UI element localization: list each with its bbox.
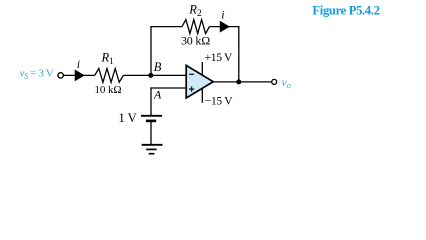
svg-text:30 kΩ: 30 kΩ	[181, 33, 210, 47]
svg-text:vS = 3 V: vS = 3 V	[20, 67, 54, 80]
wire node A to battery	[150, 87, 152, 115]
battery negative plate	[146, 120, 156, 123]
svg-text:i: i	[77, 57, 80, 71]
wire input	[63, 74, 94, 76]
wire noninverting input	[151, 87, 187, 89]
resistor R1	[95, 69, 124, 83]
current arrow i (feedback)	[220, 21, 230, 33]
op-amp minus sign	[189, 73, 194, 75]
op-amp U1	[186, 65, 213, 98]
svg-text:1 V: 1 V	[119, 111, 137, 125]
output wire	[213, 81, 271, 83]
svg-text:−15 V: −15 V	[205, 96, 233, 108]
svg-text:+15 V: +15 V	[205, 52, 233, 64]
svg-text:B: B	[154, 60, 162, 74]
wire feedback top left	[150, 26, 182, 28]
wire feedback top right	[210, 26, 240, 28]
svg-text:i: i	[221, 8, 224, 22]
battery positive plate	[141, 115, 162, 117]
op-amp plus sign	[189, 86, 194, 91]
node B junction dot	[148, 73, 153, 78]
svg-text:vo: vo	[282, 77, 291, 90]
svg-text:10 kΩ: 10 kΩ	[95, 84, 122, 96]
output junction node	[236, 79, 241, 84]
svg-text:Figure P5.4.2: Figure P5.4.2	[312, 3, 379, 17]
svg-text:A: A	[153, 88, 162, 102]
wire feedback vertical left	[150, 27, 152, 76]
output terminal circle	[272, 79, 277, 84]
resistor R2	[182, 20, 210, 34]
wire feedback vertical right	[238, 26, 240, 82]
-15V supply stub	[201, 88, 203, 102]
svg-text:R1: R1	[101, 51, 114, 67]
source terminal circle	[58, 73, 63, 78]
svg-text:R2: R2	[188, 3, 202, 20]
+15V supply stub	[201, 62, 203, 75]
current arrow i (input)	[75, 70, 85, 82]
wire R1 to opamp	[123, 74, 186, 76]
ground	[142, 145, 163, 154]
wire battery to ground	[150, 122, 152, 145]
